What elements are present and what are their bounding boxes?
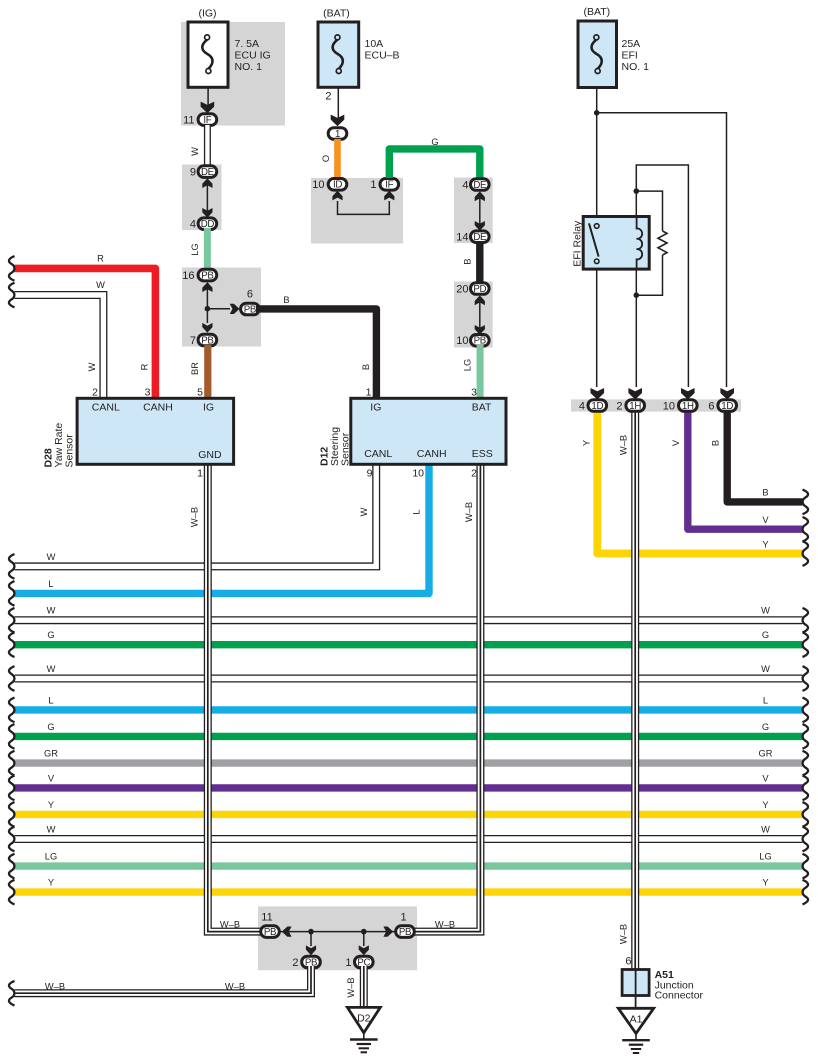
- ECU-B connector gray panel: [311, 178, 403, 244]
- svg-text:7. 5A: 7. 5A: [235, 38, 260, 50]
- svg-text:CANL: CANL: [364, 448, 392, 460]
- svg-text:W–B: W–B: [225, 981, 245, 991]
- svg-text:EFI: EFI: [622, 50, 638, 62]
- GR bus row 8: [9, 749, 808, 776]
- fuse 7.5A ECU IG NO.1: [188, 8, 271, 88]
- link 9 DE to 4 DD: [202, 178, 212, 218]
- connector 10 1H: [663, 400, 697, 413]
- svg-text:CANH: CANH: [143, 402, 173, 414]
- svg-text:11: 11: [261, 912, 272, 924]
- svg-text:ESS: ESS: [472, 448, 493, 460]
- svg-text:W–B: W–B: [435, 920, 455, 930]
- svg-text:1: 1: [197, 468, 203, 480]
- svg-text:PB: PB: [201, 335, 213, 346]
- fuse 25A EFI NO.1: [578, 6, 649, 88]
- connector 16 PB: [182, 269, 216, 282]
- resistor: [658, 231, 667, 255]
- svg-text:W: W: [87, 362, 97, 371]
- svg-text:W–B: W–B: [45, 981, 65, 991]
- svg-text:R: R: [140, 363, 150, 370]
- connector 6 PB: [241, 289, 260, 316]
- wire fuse EFI to relay switch: [596, 88, 598, 217]
- link 4 DE to 14 DE: [475, 191, 485, 230]
- DE-DE connector gray panel right: [454, 178, 493, 244]
- svg-text:1: 1: [335, 129, 340, 140]
- svg-text:1: 1: [400, 912, 406, 924]
- connector 11 PB: [261, 912, 280, 938]
- D12 pin numbers: [366, 386, 478, 479]
- svg-text:ECU IG: ECU IG: [235, 50, 271, 62]
- W bus row 5: [9, 664, 808, 691]
- svg-text:10: 10: [312, 179, 324, 191]
- G bus row 4: [9, 630, 808, 657]
- LG bus row 12: [9, 852, 808, 879]
- svg-text:V: V: [762, 515, 769, 525]
- svg-text:V: V: [762, 773, 769, 783]
- svg-text:V: V: [671, 439, 681, 446]
- svg-text:W: W: [761, 825, 770, 835]
- svg-text:6: 6: [625, 956, 631, 968]
- V wire from connector 1H pin 10: [671, 410, 808, 542]
- svg-text:5: 5: [197, 386, 203, 398]
- connector 9 DE: [190, 166, 217, 179]
- svg-text:Sensor: Sensor: [64, 434, 76, 468]
- svg-text:W: W: [190, 147, 200, 156]
- svg-text:9: 9: [367, 468, 373, 480]
- svg-text:B: B: [283, 295, 289, 305]
- fuse 10A ECU-B: [318, 8, 400, 88]
- LG wire 4 DD to 16 PB: [190, 228, 207, 270]
- PD-PB connector gray panel right: [454, 282, 493, 348]
- node relay coil bottom: [634, 292, 640, 298]
- svg-text:1H: 1H: [629, 401, 641, 412]
- svg-text:BAT: BAT: [472, 402, 492, 414]
- L bus row 6: [9, 695, 808, 722]
- svg-text:L: L: [48, 695, 53, 705]
- wire fuse IG to connector 11 IF: [201, 87, 215, 113]
- svg-text:O: O: [321, 155, 331, 162]
- svg-text:ID: ID: [333, 180, 342, 191]
- svg-text:20: 20: [456, 283, 468, 295]
- svg-text:6: 6: [247, 289, 253, 301]
- svg-text:NO. 1: NO. 1: [235, 61, 263, 73]
- svg-text:G: G: [762, 722, 769, 732]
- svg-text:10: 10: [663, 400, 675, 412]
- svg-text:R: R: [97, 254, 104, 264]
- BR wire 7 PB to D28 IG pin 5: [190, 345, 208, 399]
- svg-text:W: W: [761, 606, 770, 616]
- svg-text:EFI Relay: EFI Relay: [572, 220, 584, 267]
- svg-text:2: 2: [471, 468, 477, 480]
- svg-text:Y: Y: [582, 440, 592, 446]
- connector 10 ID: [312, 179, 347, 192]
- svg-text:25A: 25A: [622, 38, 641, 50]
- svg-text:W–B: W–B: [190, 507, 200, 527]
- Y bus row 13: [9, 878, 808, 905]
- A51 junction connector: [622, 956, 703, 1009]
- link 20 PD to 10 PB: [475, 295, 485, 334]
- svg-text:W: W: [359, 507, 369, 516]
- svg-text:GR: GR: [759, 749, 773, 759]
- svg-text:G: G: [47, 630, 54, 640]
- svg-text:1: 1: [370, 179, 376, 191]
- connector 1 IF: [370, 179, 398, 192]
- connector 1 PC: [345, 956, 373, 969]
- W label D12 CANL wire: [359, 507, 369, 516]
- svg-text:B: B: [463, 259, 473, 265]
- svg-text:4: 4: [190, 219, 196, 231]
- svg-text:Y: Y: [762, 878, 768, 888]
- wire branch to connector 1D pin 6: [597, 113, 734, 400]
- W bus row 11: [9, 825, 808, 852]
- B wire 6 PB to D12 IG pin 1: [256, 295, 376, 399]
- svg-text:2: 2: [325, 91, 331, 103]
- svg-text:W–B: W–B: [619, 924, 629, 944]
- W label D28 CANL wire: [87, 362, 97, 371]
- svg-text:W: W: [96, 280, 105, 290]
- connector 11 IF: [183, 114, 217, 127]
- node relay coil top: [634, 188, 640, 194]
- svg-text:(BAT): (BAT): [583, 6, 610, 18]
- svg-text:16: 16: [182, 270, 194, 282]
- G wire 1 IF to 4 DE: [389, 137, 480, 179]
- svg-text:2: 2: [92, 386, 98, 398]
- svg-text:PB: PB: [399, 927, 411, 938]
- svg-text:G: G: [762, 630, 769, 640]
- bottom PB-PC gray panel: [258, 906, 417, 970]
- connector 2 PB: [292, 956, 320, 969]
- svg-text:L: L: [763, 695, 768, 705]
- svg-text:10A: 10A: [365, 38, 384, 50]
- svg-text:3: 3: [471, 386, 477, 398]
- D28 pin numbers: [92, 386, 203, 479]
- resistor leads top: [636, 191, 662, 231]
- 1D-1H connector band: [571, 399, 741, 411]
- svg-text:GR: GR: [44, 749, 58, 759]
- svg-text:9: 9: [190, 167, 196, 179]
- svg-text:L: L: [48, 579, 53, 589]
- W bus row 3: [9, 606, 808, 633]
- connector 7 PB: [190, 334, 217, 347]
- wire fuse ECU-B to connector 1: [325, 87, 344, 126]
- svg-text:NO. 1: NO. 1: [622, 61, 650, 73]
- svg-text:W: W: [47, 825, 56, 835]
- svg-text:LG: LG: [463, 359, 473, 371]
- svg-text:IG: IG: [203, 402, 214, 414]
- connector 20 PD: [456, 283, 489, 296]
- svg-text:2: 2: [292, 957, 298, 969]
- R wire to D28 CANH pin 3: [9, 254, 155, 399]
- IG fuse gray panel: [181, 22, 285, 126]
- svg-text:1H: 1H: [682, 401, 694, 412]
- svg-text:B: B: [711, 440, 721, 446]
- connector 6 1D: [708, 400, 736, 413]
- ECU-B internal link wire: [332, 191, 394, 215]
- svg-text:7: 7: [190, 335, 196, 347]
- svg-text:B: B: [762, 488, 768, 498]
- svg-text:3: 3: [145, 386, 151, 398]
- connector 4 DD: [190, 218, 217, 231]
- svg-text:G: G: [431, 137, 438, 147]
- svg-text:2: 2: [616, 400, 622, 412]
- svg-text:GND: GND: [198, 449, 222, 461]
- svg-text:Y: Y: [762, 800, 768, 810]
- PB junction gray panel: [182, 268, 261, 347]
- wire relay switch to connector 1D pin 4: [591, 269, 605, 400]
- resistor leads bottom: [636, 255, 662, 295]
- wire relay coil to connector 1H pin 2: [628, 269, 642, 400]
- connector 4 DE: [462, 179, 489, 192]
- svg-text:V: V: [48, 773, 55, 783]
- svg-text:Y: Y: [762, 539, 768, 549]
- connector circle 1: [328, 128, 347, 140]
- EFI relay box: [572, 217, 650, 270]
- connector 10 PB right: [456, 335, 489, 348]
- svg-text:1: 1: [366, 386, 372, 398]
- svg-text:DE: DE: [201, 167, 215, 178]
- svg-text:LG: LG: [759, 852, 771, 862]
- svg-text:G: G: [47, 722, 54, 732]
- LG wire 10 PB to D12 BAT pin 3: [463, 345, 481, 399]
- svg-text:1D: 1D: [591, 401, 603, 412]
- W-B wire 2 PB to left: [9, 966, 311, 1006]
- W wire 11 IF to 9 DE: [190, 125, 207, 166]
- connector 1 PB: [396, 912, 415, 938]
- W wire to D28 CANL pin 2: [9, 280, 105, 399]
- relay coil: [637, 217, 643, 270]
- G bus row 7: [9, 722, 808, 749]
- svg-text:LG: LG: [45, 852, 57, 862]
- W-B wire from connector 1H pin 2 to A51 junction connector: [619, 410, 636, 971]
- svg-text:W–B: W–B: [464, 502, 474, 522]
- ground A1 triangle: [618, 1008, 653, 1033]
- svg-text:PB: PB: [201, 271, 213, 282]
- svg-text:B: B: [361, 364, 371, 370]
- ground A1 symbol: [622, 1034, 650, 1054]
- svg-text:A1: A1: [630, 1013, 643, 1025]
- svg-text:W: W: [47, 664, 56, 674]
- svg-text:W–B: W–B: [220, 920, 240, 930]
- connector 4 1D: [579, 400, 607, 413]
- svg-text:PB: PB: [244, 304, 256, 315]
- svg-text:10: 10: [412, 468, 424, 480]
- svg-text:4: 4: [579, 400, 585, 412]
- svg-text:Y: Y: [48, 800, 54, 810]
- L label D12 CANH wire: [412, 509, 422, 514]
- svg-text:IF: IF: [203, 115, 211, 126]
- junction internal wire: [280, 927, 395, 956]
- link 16 PB junction wires: [202, 282, 239, 333]
- svg-text:BR: BR: [190, 362, 200, 375]
- svg-text:10: 10: [456, 335, 468, 347]
- svg-text:PB: PB: [264, 927, 276, 938]
- L wire D12 CANH pin 10 to left bus row 2: [9, 464, 429, 606]
- svg-text:DE: DE: [473, 180, 487, 191]
- svg-text:14: 14: [456, 232, 468, 244]
- svg-text:W–B: W–B: [346, 977, 356, 997]
- svg-text:Y: Y: [48, 878, 54, 888]
- D28 Yaw Rate Sensor box: [43, 398, 234, 467]
- svg-text:Connector: Connector: [655, 989, 704, 1001]
- svg-text:Sensor: Sensor: [340, 432, 352, 466]
- svg-text:W: W: [47, 552, 56, 562]
- svg-text:(IG): (IG): [198, 8, 216, 20]
- ground D2 triangle: [347, 1007, 380, 1032]
- wire relay coil top node: [636, 165, 694, 400]
- svg-text:W–B: W–B: [619, 435, 629, 455]
- svg-text:W: W: [761, 664, 770, 674]
- svg-text:CANH: CANH: [417, 448, 447, 460]
- svg-text:CANL: CANL: [92, 402, 120, 414]
- Y bus row 10: [9, 800, 808, 827]
- connector 14 DE: [456, 231, 489, 244]
- svg-text:1: 1: [345, 957, 351, 969]
- svg-text:W: W: [47, 606, 56, 616]
- B wire 14 DE to 20 PD: [463, 241, 480, 284]
- W-B wire D12 ESS pin 2 to junction connector 1 PB: [414, 464, 480, 932]
- W-B wire 1 PC to ground D2: [346, 966, 364, 1008]
- svg-text:1D: 1D: [721, 401, 733, 412]
- Y wire from connector 1D pin 4: [582, 410, 809, 566]
- D12 Steering Sensor box: [319, 398, 507, 466]
- svg-text:IF: IF: [385, 180, 393, 191]
- svg-text:4: 4: [462, 179, 468, 191]
- B wire from connector 1D pin 6: [711, 410, 809, 514]
- svg-text:(BAT): (BAT): [323, 8, 350, 20]
- R label D28 CANH wire: [140, 363, 150, 370]
- svg-text:11: 11: [183, 115, 194, 127]
- connector 2 1H: [616, 400, 644, 413]
- V bus row 9: [9, 773, 808, 800]
- W-B wire D28 GND pin 1 to junction connector 11 PB: [190, 464, 262, 932]
- DE-DD connector gray panel: [182, 165, 222, 231]
- ground D2 symbol: [350, 1033, 378, 1053]
- svg-text:PD: PD: [473, 284, 486, 295]
- svg-text:LG: LG: [190, 243, 200, 255]
- W wire D12 CANL pin 9 to left bus row 1: [9, 464, 376, 579]
- svg-text:D2: D2: [357, 1013, 371, 1025]
- node fuse EFI branch: [594, 110, 600, 116]
- svg-text:ECU–B: ECU–B: [365, 50, 400, 62]
- svg-text:IG: IG: [370, 402, 381, 414]
- svg-text:6: 6: [708, 400, 714, 412]
- svg-text:L: L: [412, 509, 422, 514]
- relay switch: [589, 223, 599, 263]
- O wire connector 1 to 10 ID: [321, 139, 338, 178]
